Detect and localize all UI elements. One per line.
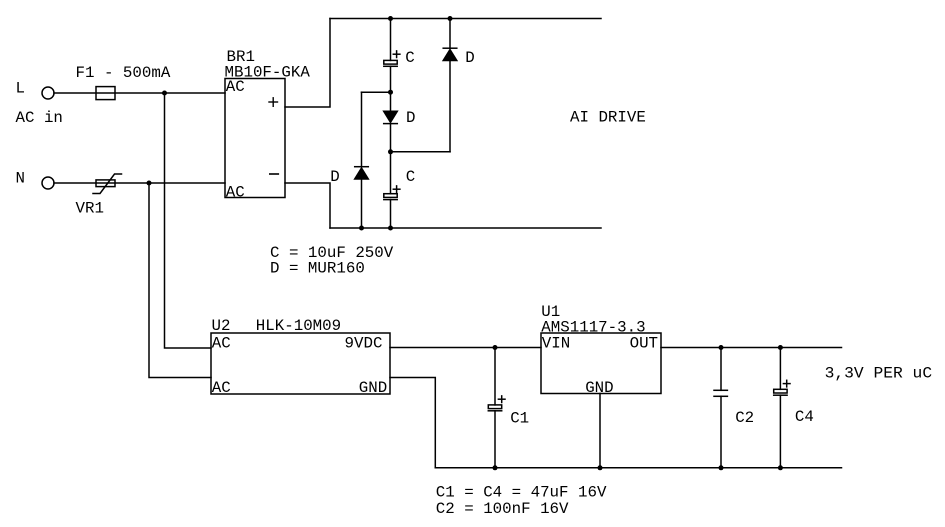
svg-text:3,3V PER uC: 3,3V PER uC — [825, 364, 933, 382]
node bottom rail / left diode — [359, 226, 364, 231]
wire diode D to lower cap C — [390, 124, 392, 194]
svg-text:D: D — [465, 49, 474, 67]
svg-text:D = MUR160: D = MUR160 — [270, 259, 365, 277]
wire top rail to cap C — [390, 19, 392, 61]
wire ground rail — [435, 467, 841, 469]
node U1 GND — [598, 465, 603, 470]
wire U1 OUT to 3.3V — [661, 347, 842, 349]
plus sign of lower cap C — [393, 186, 400, 193]
svg-text:C: C — [406, 168, 415, 186]
svg-text:C4: C4 — [795, 408, 814, 426]
fuse F1 — [96, 87, 115, 100]
varistor VR1 — [93, 174, 122, 194]
bridge rectifier BR1 — [225, 79, 285, 198]
pin label - — [270, 173, 279, 175]
wire L junction down to U2 AC1 — [165, 93, 212, 348]
wire N junction down to U2 AC2 — [149, 183, 211, 378]
wire top rail — [330, 18, 601, 20]
wire L line to BR1 — [54, 92, 225, 94]
wire N line to BR1 — [54, 182, 225, 184]
svg-text:C2: C2 — [735, 409, 754, 427]
power module U2 — [211, 333, 390, 394]
node mid column upper — [388, 90, 393, 95]
capacitor C4 — [774, 389, 787, 395]
wire bottom rail of drive section — [330, 227, 601, 229]
svg-text:D: D — [406, 109, 415, 127]
svg-text:C1: C1 — [510, 409, 529, 427]
wire C1 top lead — [494, 348, 496, 405]
node C2 top — [719, 345, 724, 350]
wire right column lower — [449, 61, 451, 152]
wire junction to left column — [362, 91, 391, 93]
wire U1 GND pin to ground rail — [599, 394, 601, 468]
terminal N — [42, 177, 54, 189]
wire C1 bottom lead — [494, 411, 496, 468]
svg-text:AC: AC — [212, 379, 231, 397]
wire 9VDC to U1 VIN — [390, 347, 541, 349]
svg-text:L: L — [16, 80, 25, 98]
svg-text:C: C — [405, 49, 414, 67]
diode D (left, pointing up) — [355, 167, 369, 179]
wire cap C to diode D — [390, 66, 392, 111]
node C1 bottom — [493, 465, 498, 470]
terminal L — [42, 87, 54, 99]
wire C2 top lead — [720, 348, 722, 391]
capacitor C1 — [488, 405, 501, 411]
svg-text:C2 = 100nF 16V: C2 = 100nF 16V — [436, 500, 569, 518]
svg-text:VR1: VR1 — [76, 200, 104, 218]
plus sign of C1 — [498, 396, 505, 403]
wire left column lower — [361, 179, 363, 228]
svg-text:N: N — [16, 170, 25, 188]
pin label + — [269, 98, 278, 107]
diode D (middle, pointing down) — [384, 111, 398, 123]
node N junction — [147, 181, 152, 186]
svg-text:AC in: AC in — [16, 109, 63, 127]
svg-text:AC: AC — [212, 334, 231, 352]
wire BR1 - output to bottom rail — [285, 183, 330, 228]
capacitor C2 — [714, 390, 727, 396]
svg-text:GND: GND — [359, 379, 387, 397]
svg-text:U2: U2 — [212, 317, 231, 335]
node C1 top — [493, 345, 498, 350]
plus sign of top cap C — [393, 51, 400, 58]
wire C4 bottom lead — [779, 395, 781, 468]
wire lower cap C to bottom rail — [390, 200, 392, 228]
capacitor C (top) — [384, 60, 397, 66]
svg-text:HLK-10M09: HLK-10M09 — [256, 317, 341, 335]
wire C4 top lead — [779, 348, 781, 390]
node C2 bottom — [719, 465, 724, 470]
svg-text:OUT: OUT — [630, 334, 658, 352]
svg-text:F1 - 500mA: F1 - 500mA — [76, 64, 171, 82]
node top rail / cap C — [388, 16, 393, 21]
svg-text:9VDC: 9VDC — [345, 334, 383, 352]
svg-text:AC: AC — [226, 78, 245, 96]
regulator U1 — [541, 333, 661, 394]
capacitor C (lower) — [384, 194, 397, 200]
svg-text:AC: AC — [226, 183, 245, 201]
node top rail / right diode — [448, 16, 453, 21]
plus sign of C4 — [783, 380, 790, 387]
node L junction — [162, 91, 167, 96]
wire BR1 + output to top rail — [285, 19, 330, 108]
svg-text:VIN: VIN — [542, 334, 570, 352]
wire U2 GND down to ground rail — [390, 378, 435, 468]
node bottom rail / cap C — [388, 226, 393, 231]
wire right column upper — [449, 19, 451, 49]
svg-text:D: D — [330, 168, 339, 186]
node C4 bottom — [778, 465, 783, 470]
svg-text:AI DRIVE: AI DRIVE — [570, 109, 646, 127]
wire C2 bottom lead — [720, 396, 722, 468]
node mid column lower — [388, 149, 393, 154]
diode D (right, pointing up) — [443, 48, 457, 60]
wire left column upper — [361, 92, 363, 167]
node C4 top — [778, 345, 783, 350]
wire junction to right column — [391, 151, 451, 153]
